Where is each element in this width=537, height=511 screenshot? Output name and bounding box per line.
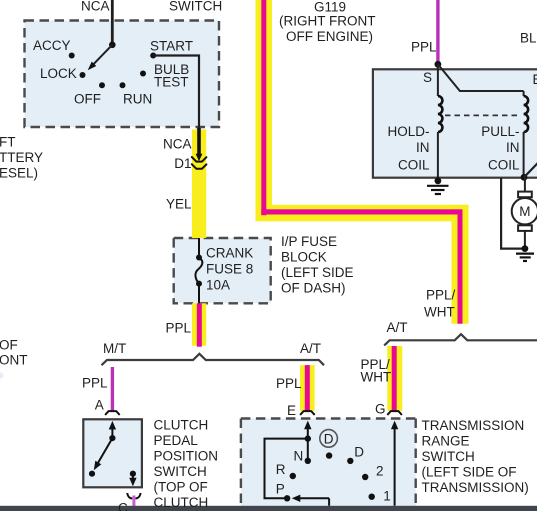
svg-text:OF: OF: [0, 337, 18, 352]
contact dot circled D: [326, 452, 332, 458]
svg-text:M: M: [519, 204, 530, 219]
svg-text:RANGE: RANGE: [422, 433, 470, 448]
contact dot LOCK: [80, 72, 86, 78]
svg-text:FT: FT: [0, 134, 16, 149]
connector cup at A: [105, 411, 120, 415]
svg-text:OFF: OFF: [74, 91, 101, 106]
PPL highlighted band below fuse block: [192, 303, 206, 346]
svg-text:A: A: [95, 397, 104, 412]
PPL wire M/T branch: [111, 367, 114, 411]
wire S to pull-in coil: [438, 64, 524, 91]
D1 connector female cups: [192, 157, 207, 169]
svg-text:BLK: BLK: [520, 30, 537, 45]
svg-text:WHT: WHT: [361, 369, 392, 384]
connector cup at G: [387, 411, 402, 415]
ground below motor: [516, 245, 534, 261]
svg-text:START: START: [150, 38, 193, 53]
ignition switch box: [25, 21, 220, 128]
svg-text:TRANSMISSION): TRANSMISSION): [422, 480, 529, 495]
svg-text:SWITCH: SWITCH: [169, 0, 222, 13]
fuse block box: [174, 238, 271, 303]
svg-text:HOLD-: HOLD-: [387, 124, 429, 139]
svg-text:SWITCH: SWITCH: [154, 464, 207, 479]
svg-text:TRANSMISSION: TRANSMISSION: [422, 418, 525, 433]
svg-text:E: E: [533, 72, 537, 87]
svg-text:C: C: [118, 500, 128, 511]
connector cup at C: [127, 493, 132, 499]
wire from junction to P contact: [265, 439, 308, 499]
svg-text:N: N: [294, 448, 304, 463]
clutch pedal position switch box: [83, 419, 142, 487]
diagonal wire from pull-in junction: [524, 163, 537, 178]
starter motor M: [512, 177, 537, 248]
svg-text:NCA: NCA: [81, 0, 110, 13]
ignition switch wiper arrow to LOCK: [88, 45, 113, 71]
svg-text:IN: IN: [416, 140, 430, 155]
crank fuse 8 element: [195, 238, 202, 303]
svg-text:D: D: [354, 445, 364, 460]
connector cup at E: [300, 411, 315, 415]
svg-text:RUN: RUN: [123, 91, 152, 106]
clutch switch top contact dot: [109, 435, 115, 441]
svg-text:(RIGHT FRONT: (RIGHT FRONT: [279, 13, 376, 28]
svg-text:PPL: PPL: [82, 376, 108, 391]
svg-text:PPL: PPL: [411, 39, 437, 54]
transmission range switch box: [241, 419, 416, 507]
svg-text:ONT: ONT: [0, 352, 28, 367]
transmission switch arrow up at G and wire down: [391, 421, 398, 506]
svg-text:D1: D1: [174, 156, 191, 171]
PPL wire below C: [132, 496, 135, 507]
svg-text:YEL: YEL: [166, 196, 192, 211]
svg-text:PPL/: PPL/: [426, 287, 456, 302]
contact dot RUN: [120, 82, 126, 88]
clutch switch lower-left contact dot: [89, 471, 95, 477]
svg-text:P: P: [276, 481, 285, 496]
svg-text:G119: G119: [314, 0, 346, 14]
contact dot N: [305, 458, 311, 464]
clutch switch arrow up at A: [109, 421, 116, 438]
svg-text:PPL: PPL: [165, 320, 191, 335]
transmission switch junction dot at E: [305, 435, 311, 441]
bottom gray bar: [0, 506, 537, 511]
svg-text:POSITION: POSITION: [154, 448, 219, 463]
NCA wire segment with male arrow at D1: [196, 128, 203, 161]
svg-text:CRANK: CRANK: [206, 245, 253, 260]
junction dot pull-in coil bottom: [521, 174, 528, 181]
brace splitting M/T and A/T: [102, 354, 325, 365]
svg-text:M/T: M/T: [103, 341, 126, 356]
svg-text:10A: 10A: [206, 277, 230, 292]
contact dot D: [347, 458, 353, 464]
wire START to box exit: [153, 56, 199, 129]
svg-text:WHT: WHT: [424, 304, 455, 319]
svg-text:OF DASH): OF DASH): [281, 280, 346, 295]
leftover fragment left edge: [0, 373, 4, 379]
svg-text:A/T: A/T: [300, 341, 321, 356]
starter solenoid box: [373, 69, 537, 177]
svg-text:PPL: PPL: [276, 376, 302, 391]
clutch switch right contact dot and down arrow: [129, 471, 136, 487]
svg-text:BLOCK: BLOCK: [281, 249, 327, 264]
contact dot OFF: [99, 82, 105, 88]
junction dot at S: [435, 61, 442, 68]
svg-text:CLUTCH: CLUTCH: [154, 495, 209, 510]
svg-text:PEDAL: PEDAL: [154, 433, 199, 448]
PPL/WHT highlighted band A/T branch to G: [387, 346, 402, 411]
contact dot R: [290, 473, 296, 479]
contact dot START: [150, 53, 156, 59]
transmission switch arrow up at E: [304, 421, 311, 439]
svg-text:COIL: COIL: [488, 157, 520, 172]
svg-text:ACCY: ACCY: [33, 38, 71, 53]
svg-text:R: R: [276, 462, 286, 477]
wire from junction to N contact: [307, 439, 309, 458]
svg-text:PULL-: PULL-: [481, 124, 519, 139]
ground below hold-in coil: [427, 177, 449, 194]
hold-in coil: [438, 64, 443, 181]
svg-text:FUSE 8: FUSE 8: [206, 261, 253, 276]
svg-text:LOCK: LOCK: [40, 66, 77, 81]
svg-text:TTERY: TTERY: [0, 150, 43, 165]
ignition switch pivot dot: [109, 42, 116, 49]
svg-text:(LEFT SIDE: (LEFT SIDE: [281, 265, 354, 280]
svg-text:I/P FUSE: I/P FUSE: [281, 234, 337, 249]
svg-text:G: G: [375, 401, 386, 416]
svg-text:(TOP OF: (TOP OF: [154, 479, 208, 494]
clutch switch blade arrow: [94, 438, 113, 470]
svg-text:E: E: [287, 403, 296, 418]
svg-text:S: S: [423, 70, 432, 85]
contact dot P: [284, 495, 290, 501]
brace A/T split right: [384, 334, 537, 345]
PPL/WHT highlighted L-wire top middle: [256, 0, 469, 324]
PPL wire to S terminal: [436, 0, 439, 62]
circled D indicator: [320, 430, 338, 448]
svg-text:ESEL): ESEL): [0, 165, 38, 180]
svg-text:A/T: A/T: [387, 320, 408, 335]
solenoid return path to ground: [501, 178, 522, 249]
svg-text:OFF ENGINE): OFF ENGINE): [286, 29, 373, 44]
svg-text:CLUTCH: CLUTCH: [154, 417, 209, 432]
svg-text:2: 2: [376, 463, 384, 478]
wiper arrow to P and wire down: [292, 495, 329, 506]
pull-in coil: [524, 91, 529, 178]
svg-text:SWITCH: SWITCH: [422, 449, 475, 464]
contact dot 2: [362, 474, 368, 480]
YEL highlight band below ignition switch: [192, 130, 206, 239]
dashed mechanical link between coils: [445, 114, 518, 116]
contact dot ACCY: [69, 53, 75, 59]
wire NCA into ignition switch: [111, 0, 114, 45]
svg-text:(LEFT SIDE OF: (LEFT SIDE OF: [422, 465, 517, 480]
svg-text:NCA: NCA: [163, 136, 192, 151]
svg-text:TEST: TEST: [154, 74, 189, 89]
svg-text:D: D: [324, 431, 334, 446]
contact dot BULB TEST: [140, 71, 146, 77]
svg-text:IN: IN: [506, 140, 520, 155]
svg-text:COIL: COIL: [398, 157, 430, 172]
PPL highlighted band A/T branch to E: [300, 365, 315, 411]
contact dot 1: [369, 494, 375, 500]
svg-text:1: 1: [383, 488, 391, 503]
